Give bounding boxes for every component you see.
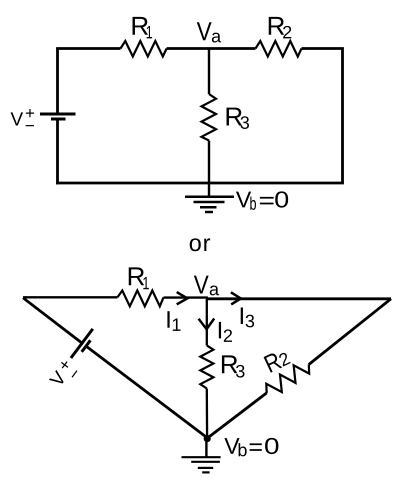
wire node Va down to R3: [208, 49, 210, 95]
battery v long plate bottom: [71, 329, 93, 358]
resistor R2: [256, 41, 302, 57]
label V battery top: [11, 109, 35, 126]
ground bar 2: [194, 201, 225, 204]
wire node Va down (bottom circuit): [206, 299, 208, 346]
current arrow I3: [231, 292, 241, 304]
battery V long plate: [40, 113, 76, 116]
label v battery bottom rotated: [49, 370, 67, 388]
label R3 top: [227, 108, 249, 129]
label I3: [241, 307, 254, 327]
wire triangle top right (node to right vertex): [207, 297, 391, 300]
wire triangle top left: [23, 296, 118, 298]
wire left diagonal upper: [23, 298, 83, 344]
wire top-left segment of top loop: [58, 47, 121, 48]
wire bottom of top loop: [56, 182, 344, 185]
label I1: [167, 311, 180, 331]
wire R3 to bottom: [208, 141, 210, 184]
wire triangle top mid (R1 to node): [164, 296, 208, 298]
battery V short plate: [51, 118, 66, 121]
label or: [190, 238, 210, 251]
label Vb=0 top: [236, 191, 288, 210]
ground stem top circuit: [208, 183, 210, 197]
label Va bottom: [194, 276, 219, 296]
resistor R1: [121, 41, 167, 57]
wire right diagonal lower: [207, 393, 267, 438]
wire right diagonal upper: [309, 299, 391, 365]
ground stem bottom circuit: [205, 439, 207, 458]
label R2 top: [269, 17, 292, 38]
resistor R3: [202, 94, 217, 141]
ground bar 2 bottom: [191, 461, 220, 463]
label Vb=0 bottom: [224, 438, 278, 457]
resistor R2 bottom: [262, 358, 313, 399]
resistor R3 bottom: [200, 345, 213, 388]
wire top-middle segment: [167, 47, 256, 50]
label I2: [219, 322, 232, 342]
label R3 bottom: [222, 355, 245, 377]
battery v short plate bottom: [82, 340, 91, 352]
ground bar 1 bottom: [182, 456, 221, 458]
ground bar 4: [205, 211, 213, 214]
label - battery bottom rotated: [72, 370, 78, 377]
ground bar 4 bottom: [202, 471, 209, 473]
label Va top: [197, 22, 221, 42]
current arrow I1: [177, 292, 188, 304]
ground bar 3 bottom: [198, 467, 213, 469]
wire left diagonal lower: [86, 346, 207, 438]
wire R3 to bottom vertex: [206, 389, 209, 439]
label R1 bottom: [129, 267, 149, 289]
label R2 bottom rotated: [264, 348, 291, 373]
label + battery bottom rotated: [59, 359, 71, 371]
resistor R1 bottom: [118, 291, 164, 307]
current arrow I2: [199, 319, 215, 330]
label R1 top: [133, 17, 153, 38]
wire left upper (top to battery plus): [56, 49, 59, 115]
wire left lower (battery minus to bottom): [56, 119, 59, 184]
ground bar 1: [185, 196, 234, 199]
node dot at bottom vertex: [204, 435, 211, 442]
ground bar 3: [200, 206, 217, 209]
wire top-right segment: [302, 49, 343, 184]
